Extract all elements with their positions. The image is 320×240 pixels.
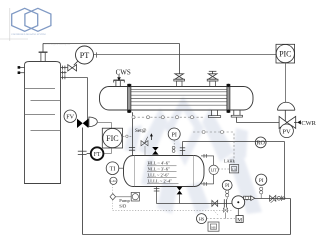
watermark (124, 96, 262, 214)
svg-text:PI: PI (172, 132, 177, 138)
column V-100 (25, 62, 61, 184)
instrument FT (91, 147, 104, 160)
wire PT to PIC signal (94, 54, 280, 56)
drum level labels (148, 161, 173, 184)
motor M (236, 209, 243, 224)
pump suction line (157, 203, 233, 205)
valve HV-2 on exchanger top (207, 71, 218, 86)
svg-text:PI: PI (225, 184, 230, 189)
right tubesheet (227, 84, 230, 113)
spectacle blind (277, 196, 285, 201)
drum drain nozzle (154, 187, 160, 204)
instrument PI suction (222, 180, 232, 199)
svg-text:HS: HS (199, 217, 205, 222)
svg-text:PIC: PIC (279, 50, 291, 59)
instrument HS (197, 214, 236, 224)
svg-text:LS: LS (232, 167, 236, 171)
svg-text:PI: PI (259, 178, 264, 184)
column left nozzles (18, 66, 25, 74)
svg-text:LLL ~ 2'-6": LLL ~ 2'-6" (148, 173, 170, 178)
signal line B with circles (193, 131, 234, 165)
interlock diamond (110, 184, 131, 210)
instrument PIC (276, 44, 295, 63)
left tubesheet (128, 84, 131, 113)
exchanger bottom nozzle 1 (208, 110, 220, 117)
signal stub FIC right (123, 135, 133, 137)
instrument LAL (110, 177, 117, 184)
drum seam lines (134, 155, 193, 186)
svg-text:HLL ~ 4'-6": HLL ~ 4'-6" (148, 161, 170, 166)
column trays (25, 89, 61, 131)
control valve PV body (277, 102, 295, 128)
suction gate valve (212, 200, 218, 206)
instrument LIT (201, 154, 218, 186)
heat exchanger E-100 shell (100, 87, 254, 111)
svg-text:PT: PT (80, 51, 90, 60)
wire overhead vapor line (43, 44, 180, 74)
wire FIC to FT (104, 148, 112, 154)
black valve on drum top (152, 147, 158, 155)
reflux drum D-100 (124, 156, 205, 187)
pump P-100 (232, 196, 255, 209)
svg-text:LAL: LAL (110, 179, 116, 183)
CWS nozzle (114, 80, 125, 86)
exchanger tubes (131, 89, 227, 105)
svg-text:FT: FT (94, 152, 101, 158)
svg-text:RO: RO (257, 141, 266, 147)
svg-text:FIC: FIC (106, 134, 118, 143)
svg-text:TI: TI (110, 167, 116, 173)
PSV with set pressure (135, 128, 153, 155)
instrument tag FV (64, 110, 76, 122)
exchanger bottom nozzle 2 (231, 110, 242, 117)
svg-text:FV: FV (66, 114, 74, 121)
wire exchanger outlet to PV (237, 117, 280, 122)
orifice flanges (78, 151, 91, 154)
svg-text:CWS: CWS (116, 69, 131, 77)
long dashed shutdown signal (113, 209, 232, 211)
node CWR (294, 120, 317, 127)
signal line A (electric with circles) (132, 116, 204, 119)
suction strainer (223, 199, 227, 212)
instrument PT (76, 46, 94, 64)
instrument tag PV (280, 124, 294, 138)
wire PIC to PV signal (285, 63, 287, 110)
wire condensate line to drum (129, 112, 135, 155)
logo hexagons (12, 8, 51, 31)
label Pump S/D (119, 198, 130, 208)
restriction orifice RO (255, 137, 266, 148)
control valve FV body (77, 117, 97, 128)
instrument PI on drum (168, 128, 180, 152)
instrument PI discharge (256, 174, 267, 198)
svg-text:ENGINEERED DRAWING SYSTEM: ENGINEERED DRAWING SYSTEM (12, 33, 46, 36)
instrument TI (106, 162, 124, 175)
alarm box UA (131, 192, 139, 201)
valve HV-1 on exchanger top (174, 74, 185, 87)
svg-text:NLL ~ 3'-6": NLL ~ 3'-6" (148, 167, 170, 172)
switch box HS (208, 210, 226, 231)
wire FV actuator to FIC (97, 122, 111, 128)
svg-text:LAHL: LAHL (224, 159, 236, 164)
valve on PT tap (68, 61, 78, 71)
svg-text:M: M (237, 217, 242, 223)
svg-text:HS: HS (211, 225, 215, 229)
svg-text:Set@: Set@ (135, 128, 147, 134)
instrument FIC (102, 128, 122, 148)
svg-text:LLLL ~ 2'-4": LLLL ~ 2'-4" (148, 178, 173, 183)
level switch LS box (218, 165, 238, 173)
node CWS (116, 69, 131, 81)
wire pump discharge loop (83, 128, 291, 235)
svg-text:PV: PV (282, 128, 291, 135)
svg-text:S/D: S/D (119, 203, 127, 208)
svg-text:CWR: CWR (301, 120, 316, 127)
crop marks (0, 8, 28, 41)
wire RO bypass line (180, 142, 285, 199)
black valve on drum outlet (177, 187, 183, 204)
discharge gate valve (270, 195, 276, 202)
svg-text:LIT: LIT (211, 167, 218, 172)
column top nozzle (39, 52, 48, 61)
column right nozzles (61, 66, 88, 120)
